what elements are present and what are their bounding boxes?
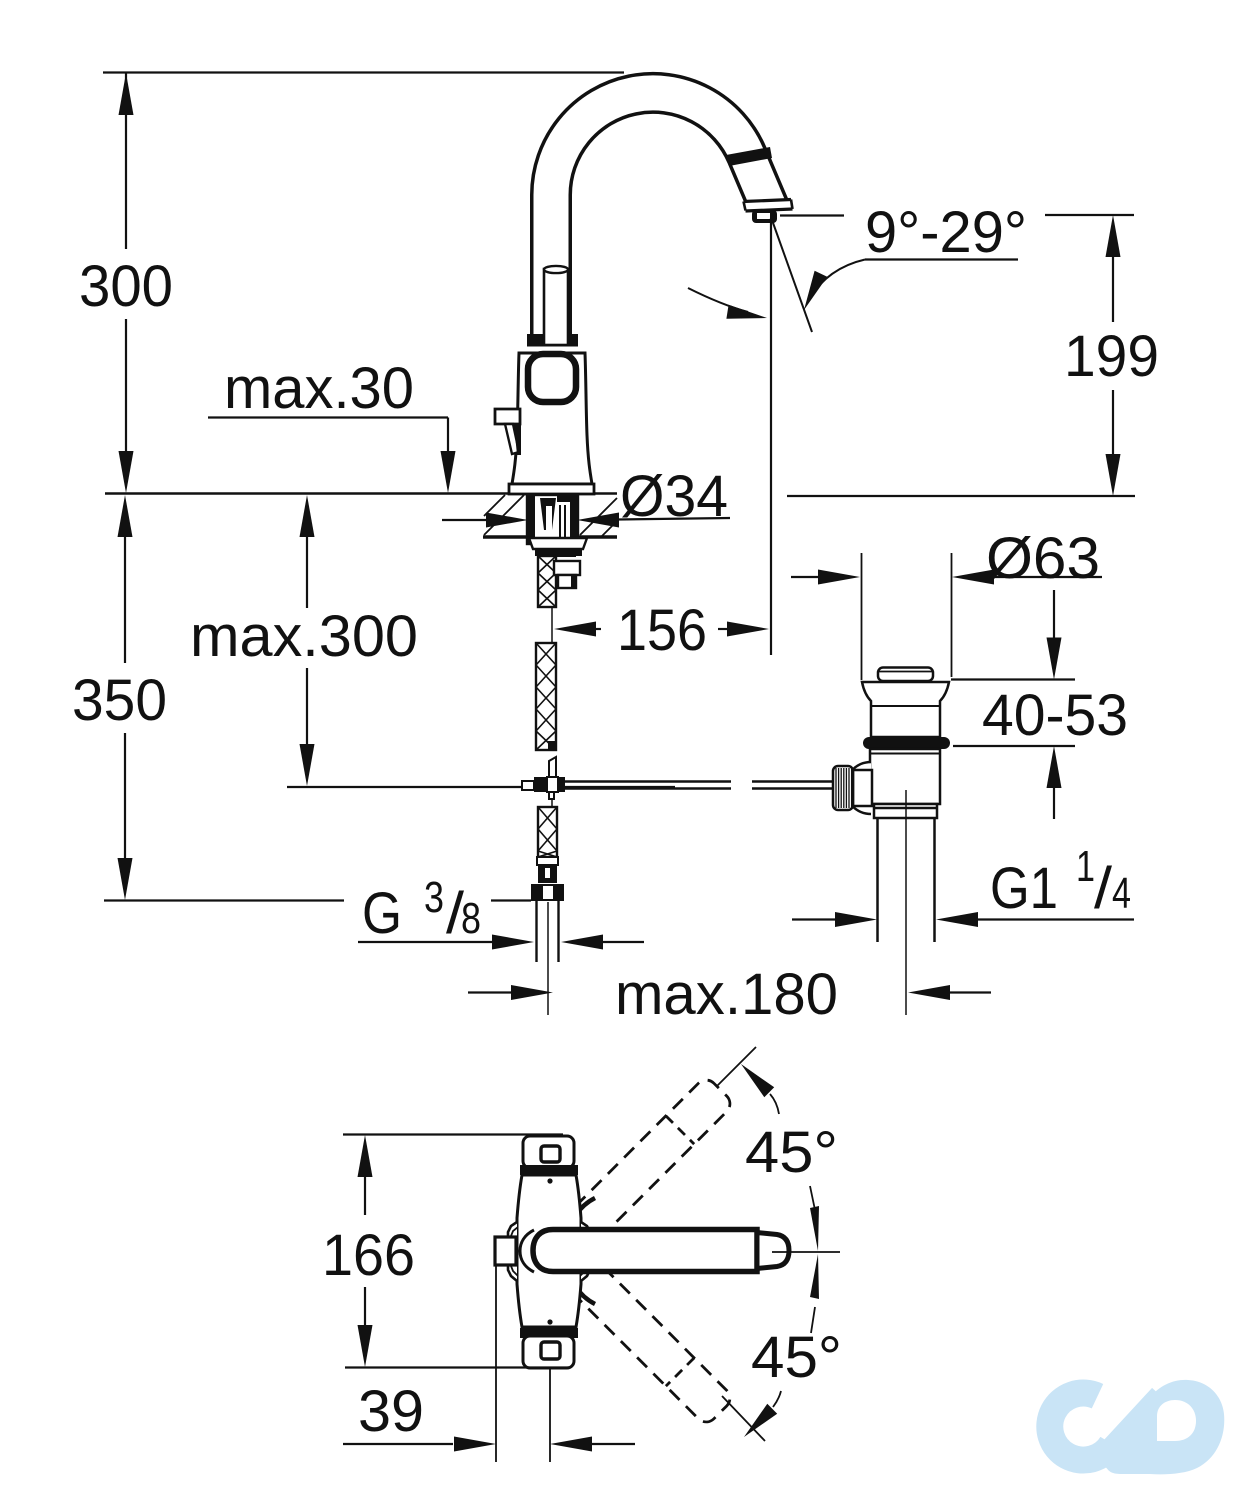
faucet spout gooseneck tube: [551, 93, 770, 345]
label 9-29 degrees: [780, 200, 1027, 310]
mounting shank through deck: [527, 495, 578, 544]
upper supply hose: [536, 643, 556, 750]
body emblem plate: [528, 354, 576, 402]
pop-up rod joint: [522, 777, 565, 792]
svg-text:40-53: 40-53: [982, 683, 1128, 748]
dashed spout position 45 up: [551, 1076, 734, 1259]
mounting locknut: [529, 538, 587, 556]
pop-up rod pin upper: [549, 757, 556, 777]
svg-text:Ø34: Ø34: [620, 464, 728, 529]
deck extension line right: [787, 495, 1135, 497]
svg-text:1: 1: [1076, 842, 1095, 891]
dimension 166: [322, 1135, 569, 1368]
faucet body: [512, 353, 592, 484]
svg-text:max.30: max.30: [224, 356, 414, 421]
extension line top of spout: [103, 71, 624, 73]
G 3/8 nut: [532, 885, 563, 900]
label G1 1/4: [990, 842, 1131, 921]
dimension 39: [343, 1264, 635, 1462]
top view band top: [520, 1165, 578, 1175]
drain locknut: [874, 804, 937, 818]
arm root arcs: [575, 1198, 595, 1304]
dimension max.300: [190, 495, 675, 787]
spray angle slant line: [772, 220, 812, 332]
drain flange: [862, 682, 949, 737]
label max.30 with leader: [208, 356, 456, 493]
supply pipe: [537, 900, 559, 1015]
svg-text:156: 156: [617, 598, 707, 663]
pop-up horizontal rod: [565, 782, 838, 789]
arm axis tick: [772, 1251, 840, 1253]
drain tailpipe: [878, 790, 935, 1015]
svg-text:350: 350: [72, 668, 167, 733]
top view cap top: [523, 1136, 574, 1168]
swivel arc with arrow: [688, 288, 767, 319]
axis line below shank: [551, 607, 553, 643]
threaded stud: [538, 556, 556, 607]
top view band bottom: [520, 1328, 578, 1338]
spout aerator tip: [736, 200, 800, 233]
svg-text:4: 4: [1112, 869, 1131, 918]
drain push button cap: [878, 668, 933, 682]
drain o-ring: [863, 737, 950, 749]
lower supply hose: [538, 807, 557, 857]
dimension G1 1/4: [792, 912, 1134, 927]
valve seat arc: [520, 1230, 534, 1272]
svg-text:8: 8: [461, 894, 481, 943]
top view dots: [547, 1178, 552, 1324]
dimension max.180: [468, 962, 991, 1027]
top view cap bottom: [523, 1336, 574, 1368]
base plate: [509, 484, 594, 494]
lever block top view: [495, 1237, 516, 1265]
spout collar band: [726, 147, 772, 166]
drain valve body: [870, 749, 940, 804]
rod knob boss: [845, 762, 872, 814]
svg-text:G: G: [362, 881, 402, 946]
countertop deck line: [105, 492, 617, 495]
svg-text:166: 166: [322, 1223, 415, 1288]
lever handle: [495, 409, 521, 455]
svg-text:3: 3: [424, 873, 444, 922]
stud bracket: [554, 549, 580, 588]
top view spout arm: [533, 1230, 789, 1272]
dimension 156: [554, 598, 769, 663]
svg-text:39: 39: [358, 1379, 424, 1444]
angle dim 45 lower: [722, 1254, 842, 1441]
dimension diameter 34: [442, 464, 730, 529]
svg-text:45°: 45°: [745, 1120, 838, 1185]
dimension 300 vertical line: [79, 73, 173, 493]
dimension 40-53: [951, 590, 1128, 819]
deck cross-section hatching: [483, 495, 617, 537]
svg-text:199: 199: [1064, 324, 1159, 389]
svg-text:G1: G1: [990, 856, 1058, 921]
svg-text:45°: 45°: [751, 1325, 842, 1390]
svg-text:max.180: max.180: [615, 962, 838, 1027]
dimension G 3/8 width: [358, 935, 644, 950]
temperature stick: [544, 266, 568, 345]
svg-text:300: 300: [79, 254, 173, 319]
hose connector: [537, 857, 558, 883]
riser base ring: [527, 334, 578, 347]
svg-text:max.300: max.300: [190, 604, 418, 669]
angle dim 45 upper: [717, 1047, 838, 1251]
watermark logo: [1050, 1380, 1224, 1474]
top view body: [508, 1175, 590, 1327]
diameter 63 extension lines: [862, 553, 952, 680]
pop-up rod pin lower: [549, 792, 554, 807]
dimension 350: [72, 495, 531, 901]
label G 3/8: [362, 873, 481, 946]
svg-text:9°-29°: 9°-29°: [865, 200, 1027, 265]
dimension diameter 63: [791, 526, 1102, 591]
spout outlet axis line: [770, 218, 772, 655]
svg-text:/: /: [1094, 856, 1113, 921]
knurled knob: [833, 766, 853, 810]
dimension 199: [1045, 215, 1159, 496]
svg-text:Ø63: Ø63: [986, 526, 1100, 591]
dashed spout position 45 down: [551, 1243, 734, 1426]
